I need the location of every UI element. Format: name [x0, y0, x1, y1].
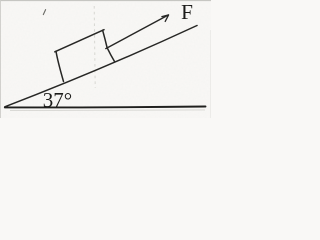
stray tick mark [43, 10, 45, 15]
ground line [5, 106, 206, 109]
ground line ghost [10, 109, 205, 112]
left scan-edge smudge [0, 0, 2, 118]
block left edge [56, 51, 64, 81]
incline line [5, 26, 197, 107]
right scan-edge smudge [210, 30, 212, 118]
crease dashed vertical line [94, 6, 95, 88]
top scan-edge smudge [0, 0, 211, 2]
force arrow shaft [106, 15, 169, 49]
paper background [0, 0, 211, 118]
block top edge [55, 30, 104, 52]
svg-text:F: F [181, 0, 193, 24]
block right edge [103, 30, 115, 61]
svg-text:37°: 37° [43, 88, 72, 112]
paper grain texture [0, 0, 1, 1]
force arrowhead [162, 15, 169, 22]
